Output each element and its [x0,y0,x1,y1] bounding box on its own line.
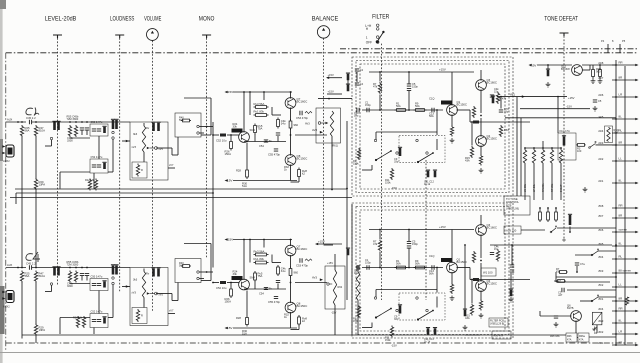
svg-text:3k3: 3k3 [133,132,138,136]
svg-text:C54: C54 [259,292,264,296]
svg-text:C52 0.47u: C52 0.47u [91,155,103,159]
svg-text:(YBELL09): (YBELL09) [506,207,519,211]
svg-text:56A: 56A [429,271,434,275]
svg-text:33p: 33p [504,109,509,113]
svg-text:RR: RR [619,204,623,208]
svg-text:+15V: +15V [568,96,575,100]
svg-text:FILTER: FILTER [372,13,390,20]
svg-text:J5/8: J5/8 [598,204,604,208]
svg-text:J5/7: J5/7 [598,214,604,218]
svg-text:C50 0.47u: C50 0.47u [91,120,103,124]
svg-text:150p: 150p [412,84,418,88]
svg-text:SN4: SN4 [250,128,256,132]
svg-text:150p: 150p [365,103,371,107]
svg-text:33k: 33k [233,272,238,276]
svg-text:8L: 8L [619,115,623,119]
svg-text:J6/1: J6/1 [598,341,604,345]
svg-text:R62: R62 [338,285,343,289]
svg-text:AV3: AV3 [312,128,317,132]
svg-text:47k: 47k [556,269,561,273]
svg-text:51A: 51A [242,184,247,188]
svg-text:VOLUME: VOLUME [144,15,161,22]
svg-text:150k: 150k [385,338,391,342]
svg-text:RR: RR [619,61,623,65]
svg-text:TONE DEFEAT: TONE DEFEAT [544,15,578,22]
svg-text:BC160C: BC160C [297,100,308,104]
svg-text:RL: RL [619,255,623,259]
svg-text:C53 470p: C53 470p [296,116,308,120]
svg-text:47A: 47A [579,339,584,342]
svg-text:C55 470p: C55 470p [268,300,280,304]
svg-text:J4/5: J4/5 [598,115,604,119]
svg-text:72M 3300: 72M 3300 [67,262,79,266]
svg-text:33p: 33p [394,317,399,321]
svg-text:817B: 817B [567,306,574,310]
svg-text:C5: C5 [598,99,602,103]
svg-text:J6/2: J6/2 [598,330,604,334]
svg-text:LR: LR [619,330,623,334]
svg-text:xV7: xV7 [169,309,174,313]
svg-text:LOUDNESS: LOUDNESS [110,15,134,22]
svg-text:33p: 33p [394,159,399,163]
svg-text:-15V: -15V [391,186,397,190]
svg-text:u47: u47 [558,293,563,297]
svg-text:C54: C54 [259,144,264,148]
svg-text:8R: 8R [619,76,623,80]
svg-text:150p: 150p [412,242,418,246]
svg-text:AV3: AV3 [312,276,317,280]
svg-text:47k: 47k [373,242,378,246]
svg-text:47k: 47k [373,84,378,88]
svg-text:L: L [366,35,368,39]
svg-text:8R: 8R [619,297,623,301]
svg-text:150k: 150k [353,161,359,165]
svg-text:BC160C: BC160C [297,247,308,251]
svg-text:BC160C: BC160C [487,226,497,230]
svg-text:56A: 56A [415,261,420,265]
svg-text:C50 0.47u: C50 0.47u [91,275,103,279]
svg-text:R2b 13k: R2b 13k [73,317,83,320]
svg-text:15a: 15a [494,247,499,251]
svg-text:13PA: 13PA [39,183,46,187]
svg-text:AUX: AUX [7,263,13,267]
svg-text:R: R [141,168,143,172]
svg-text:Rv1 83k: Rv1 83k [254,257,265,261]
svg-text:J4/3: J4/3 [598,141,604,145]
svg-text:K1Q C7A: K1Q C7A [560,130,571,133]
svg-text:R: R [141,314,143,318]
svg-text:J4/1: J4/1 [598,179,604,183]
svg-text:BC150C: BC150C [297,157,308,161]
svg-text:56A: 56A [429,114,434,118]
svg-text:43A: 43A [465,158,470,162]
svg-text:150A: 150A [225,300,232,304]
svg-text:J5/6: J5/6 [598,228,604,232]
svg-text:3300: 3300 [67,284,73,288]
svg-text:Rv1 83k: Rv1 83k [254,110,265,114]
svg-text:R63: R63 [504,128,509,132]
svg-text:3k3: 3k3 [133,278,138,282]
svg-text:33k: 33k [233,124,238,128]
svg-text:8R: 8R [619,341,623,345]
svg-text:15a: 15a [494,89,499,93]
svg-text:C45 2.2: C45 2.2 [26,116,36,120]
svg-text:AV1: AV1 [510,93,515,97]
svg-text:BALANCE: BALANCE [312,15,339,22]
svg-text:56A: 56A [396,104,401,108]
svg-text:+15V: +15V [327,261,333,265]
svg-text:J6/3: J6/3 [598,319,604,323]
svg-text:+15V: +15V [328,73,334,77]
svg-text:75A: 75A [258,274,263,278]
svg-text:J4/8: J4/8 [598,61,604,65]
svg-text:8L: 8L [619,319,623,323]
svg-text:BC150C: BC150C [487,137,497,141]
svg-text:1k 1k: 1k 1k [424,339,431,343]
svg-text:C1Q: C1Q [429,97,434,101]
svg-text:8R: 8R [619,141,623,145]
svg-text:15u: 15u [354,113,359,117]
svg-text:OFF: OFF [366,40,372,44]
svg-text:AUX: AUX [7,118,13,122]
svg-text:34u: 34u [281,269,286,273]
svg-text:LR: LR [619,93,623,97]
svg-text:960: 960 [294,123,299,127]
svg-text:100: 100 [577,149,582,153]
svg-text:BC150C: BC150C [487,282,497,286]
svg-text:150p: 150p [365,260,371,264]
svg-text:88 screen: 88 screen [619,269,632,273]
svg-text:13PA: 13PA [39,328,46,332]
svg-text:56A: 56A [179,118,184,122]
svg-text:8L: 8L [619,242,623,246]
svg-text:8L: 8L [619,179,623,183]
svg-text:SN4: SN4 [250,276,256,280]
svg-text:810A: 810A [39,129,46,133]
svg-text:J5/3: J5/3 [598,269,604,273]
svg-text:+15V: +15V [439,225,446,229]
svg-text:C1Q: C1Q [429,254,434,258]
svg-text:BC160C: BC160C [487,81,497,85]
svg-text:15u: 15u [354,271,359,275]
svg-text:-15V: -15V [391,344,397,348]
svg-text:BC150C: BC150C [297,304,308,308]
svg-text:C53 470p: C53 470p [296,264,308,268]
svg-text:J4/6: J4/6 [598,93,604,97]
svg-text:A33 100: A33 100 [506,229,517,233]
svg-text:810A: 810A [39,274,46,278]
svg-text:(R61): (R61) [332,144,339,148]
svg-text:xV7: xV7 [169,163,174,167]
svg-text:(YBELL29 B): (YBELL29 B) [490,323,504,326]
svg-text:72M 3300: 72M 3300 [67,117,79,121]
svg-text:RR: RR [619,307,623,311]
svg-text:LL: LL [619,157,623,161]
svg-text:-15V: -15V [331,311,337,315]
svg-text:W1 100: W1 100 [483,271,493,275]
svg-text:LN 30k: LN 30k [523,183,527,192]
svg-text:43A: 43A [465,316,470,320]
svg-text:LP 30k: LP 30k [532,183,536,192]
svg-text:BD/3W: BD/3W [561,67,570,71]
svg-text:AUX2: AUX2 [3,159,10,163]
svg-text:3300: 3300 [67,138,73,142]
svg-text:BC150C: BC150C [457,103,467,107]
svg-text:RP 30k: RP 30k [550,183,554,192]
svg-text:AUX2: AUX2 [3,305,10,309]
svg-text:J5/2: J5/2 [598,283,604,287]
svg-text:RL: RL [619,129,623,133]
svg-text:R28: R28 [236,316,241,320]
svg-text:56A: 56A [25,129,30,133]
svg-text:C52 10u: C52 10u [216,139,227,143]
svg-text:J4/2: J4/2 [598,157,604,161]
svg-text:J4/4: J4/4 [598,129,604,133]
svg-text:47A: 47A [567,339,572,342]
svg-text:17A: 17A [614,130,619,134]
svg-text:C55 470p: C55 470p [268,153,280,157]
svg-text:xV3: xV3 [132,145,137,149]
svg-text:+15V: +15V [328,90,334,94]
svg-text:k2: k2 [302,319,305,323]
svg-text:J6/4: J6/4 [598,307,604,311]
svg-text:+15V: +15V [439,68,446,72]
svg-text:56A: 56A [415,104,420,108]
svg-text:56A: 56A [25,274,30,278]
svg-text:1k 1k: 1k 1k [424,182,431,186]
svg-text:8R: 8R [619,214,623,218]
svg-text:56A: 56A [179,263,184,267]
svg-text:-15V: -15V [566,105,572,109]
svg-text:AV3: AV3 [305,122,310,126]
svg-text:150A: 150A [225,152,232,156]
svg-text:+15V: +15V [318,240,325,244]
svg-text:8 OUT: 8 OUT [559,184,563,192]
svg-text:J5/4: J5/4 [598,255,604,259]
svg-text:R28: R28 [236,169,241,173]
svg-text:150k: 150k [353,319,359,323]
svg-text:R2a 13k: R2a 13k [85,179,95,182]
svg-text:C52 10u: C52 10u [216,286,227,290]
svg-text:C7a: C7a [580,262,585,266]
svg-text:xV3: xV3 [132,291,137,295]
svg-text:51A: 51A [242,332,247,336]
svg-text:C52 0.47u: C52 0.47u [91,310,103,314]
svg-text:LEVEL-20dB: LEVEL-20dB [45,15,77,22]
svg-text:150k: 150k [385,180,391,184]
svg-text:screen: screen [619,228,628,232]
svg-text:k2: k2 [302,172,305,176]
svg-text:J5/1: J5/1 [598,297,604,301]
svg-text:C45 2.2: C45 2.2 [26,262,36,266]
svg-text:LL: LL [619,283,623,287]
svg-text:R06 43A: R06 43A [550,335,560,338]
svg-text:960: 960 [294,271,299,275]
svg-text:34u: 34u [281,122,286,126]
svg-text:75A: 75A [258,127,263,131]
svg-text:MONO: MONO [199,15,215,22]
svg-text:56A: 56A [396,261,401,265]
svg-text:RN 30k: RN 30k [541,183,545,192]
